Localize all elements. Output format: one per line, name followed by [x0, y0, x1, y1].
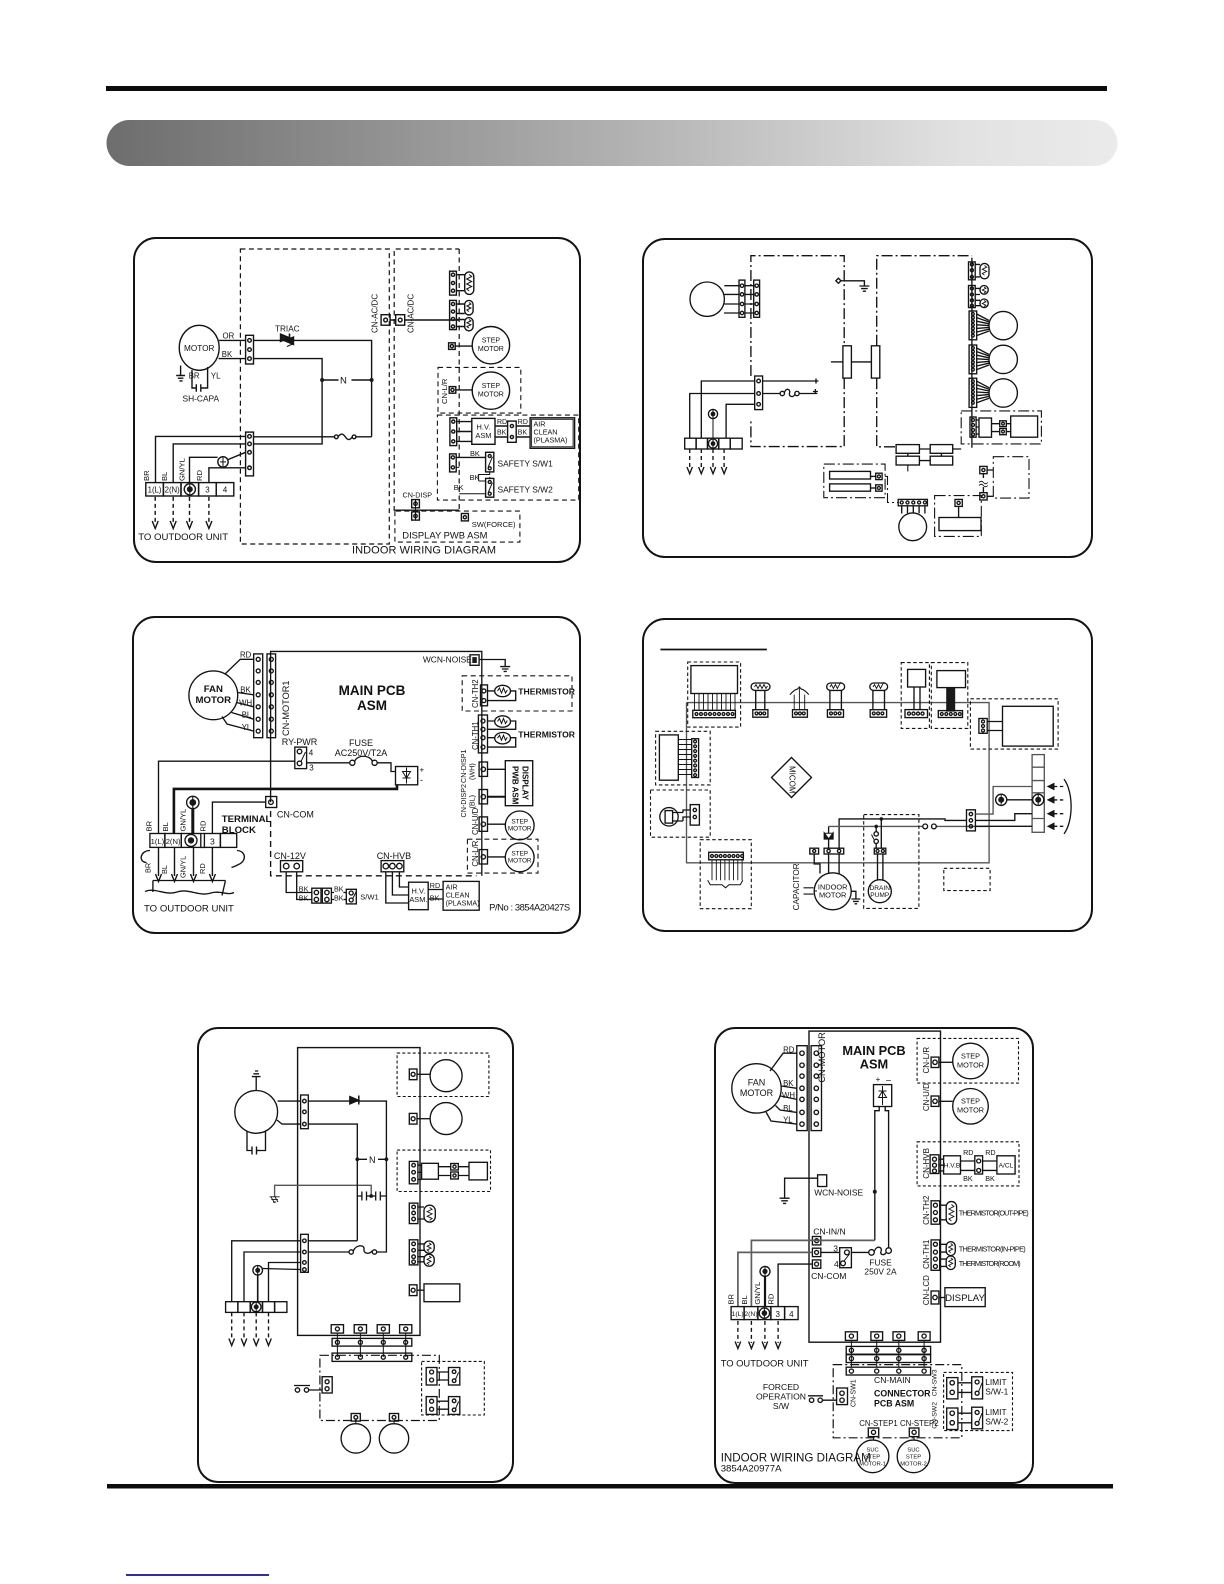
- connector HV 2-pin: [495, 421, 530, 442]
- screw upper: [253, 1266, 263, 1302]
- HV pins: [438, 1164, 469, 1180]
- link wires lower cluster: [885, 465, 908, 503]
- svg-text:4: 4: [834, 1259, 839, 1269]
- connector CN-TH1: [478, 715, 487, 753]
- wire RD terminal to CN-COM: [212, 802, 265, 833]
- svg-text:3: 3: [309, 764, 314, 773]
- AIR CLEAN (PLASMA) box: [530, 418, 575, 449]
- limit switch 1: [449, 1368, 460, 1386]
- svg-text:FAN: FAN: [204, 684, 223, 695]
- thermistor TH1d: [946, 1256, 955, 1270]
- HV connector: [409, 1161, 421, 1183]
- wire pin2 left: [690, 394, 755, 439]
- svg-text:RD: RD: [963, 1148, 973, 1157]
- fuse F1: [350, 756, 378, 765]
- arrow RD outdoor: [209, 847, 215, 881]
- svg-text:STEP: STEP: [482, 338, 501, 345]
- svg-text:A/CL: A/CL: [999, 1163, 1014, 1170]
- connector stub 3: [893, 1332, 905, 1341]
- fuse circles on line2: [923, 824, 937, 829]
- bars row 1: [896, 445, 961, 454]
- fuse: [308, 1246, 376, 1254]
- svg-text:TERMINAL: TERMINAL: [222, 814, 272, 825]
- svg-text:CN-SW1: CN-SW1: [851, 1379, 858, 1407]
- IC comb: [678, 740, 691, 775]
- wire YL: [766, 1112, 797, 1124]
- top right dashed box 2: [931, 663, 968, 729]
- svg-text:TO OUTDOOR UNIT: TO OUTDOOR UNIT: [721, 1358, 809, 1369]
- heading underline: [660, 649, 767, 651]
- triac symbol: [824, 833, 833, 839]
- wire RY-PWR to fuse: [307, 762, 350, 764]
- wire to safety switch 1: [456, 456, 485, 458]
- svg-text:RD: RD: [195, 470, 204, 481]
- connector coil group 2: [969, 286, 981, 308]
- motor pin box left: [810, 848, 820, 873]
- svg-text:BL: BL: [160, 472, 169, 481]
- suc step motor 2: [897, 1440, 930, 1473]
- diode lead left: [875, 1107, 879, 1241]
- strip row 2: [332, 1353, 412, 1361]
- screw earth GN/YL: [760, 1266, 770, 1306]
- pin box 1: [871, 473, 883, 479]
- svg-text:TRIAC: TRIAC: [275, 325, 300, 334]
- connector CN-MOTOR column B: [811, 1046, 821, 1131]
- top rule: [106, 86, 1107, 91]
- ground wire WCN: [785, 1178, 818, 1198]
- wire BR: [232, 1241, 301, 1302]
- node spine: [458, 249, 460, 510]
- svg-text:3: 3: [833, 1244, 838, 1254]
- svg-text:(PLASMA): (PLASMA): [534, 436, 568, 445]
- dashed arrow 4: [723, 449, 725, 469]
- svg-text:4: 4: [223, 486, 228, 495]
- node N line: [322, 379, 372, 381]
- dashed arrow 1: [231, 1312, 233, 1340]
- suc step motor circle 2: [379, 1424, 408, 1453]
- bars row 2: [896, 453, 953, 465]
- step motor SM2: [472, 372, 509, 409]
- svg-text:CONNECTOR: CONNECTOR: [874, 1389, 931, 1399]
- suc step motor circle 1: [341, 1424, 370, 1453]
- thermistor connector 2: [409, 1240, 424, 1265]
- drain pump dashed box: [864, 815, 919, 909]
- svg-text:CN-L/R: CN-L/R: [922, 1047, 931, 1074]
- dash-dot box right: [993, 457, 1029, 498]
- svg-text:CN-U/D: CN-U/D: [922, 1083, 931, 1111]
- dashed box limit: [422, 1361, 485, 1415]
- wire pin1 to right vertical: [308, 1101, 386, 1159]
- svg-text:STEP: STEP: [961, 1051, 980, 1060]
- pin box 1: [409, 1069, 430, 1080]
- svg-text:LIMIT: LIMIT: [985, 1377, 1006, 1387]
- capacitors row: [357, 1159, 386, 1200]
- safety switch S/W1: [486, 452, 494, 472]
- box2 body: [937, 671, 966, 688]
- connector CN-IN/N pin2: [812, 1248, 820, 1256]
- dashed arrow right 2: [1048, 797, 1054, 803]
- connector pair BK 1: [312, 888, 332, 903]
- coil unit 2: [827, 682, 845, 717]
- motor: [235, 1091, 278, 1134]
- strip row 3: [846, 1367, 930, 1375]
- relay 3/4: [840, 1248, 852, 1268]
- dash-dot box lower left: [824, 464, 885, 498]
- dashed arrow right 4: [1048, 824, 1054, 830]
- connector col 1: [301, 1095, 309, 1129]
- screw earth GN/YL: [187, 796, 199, 833]
- svg-text:FAN: FAN: [748, 1077, 766, 1087]
- svg-text:YL: YL: [242, 723, 252, 732]
- connector CN-COM: [266, 797, 277, 808]
- svg-text:WCN-NOISE: WCN-NOISE: [423, 655, 472, 665]
- svg-text:OR: OR: [223, 332, 235, 341]
- terminal block: [685, 438, 743, 449]
- wire RD terminal to CN-COM: [778, 1264, 812, 1307]
- svg-text:RY-PWR: RY-PWR: [282, 737, 318, 747]
- junction dot: [370, 378, 374, 382]
- svg-text:MAIN PCB: MAIN PCB: [339, 683, 406, 698]
- svg-text:–: –: [886, 1075, 891, 1085]
- dashed arrow right 3: [1048, 811, 1054, 817]
- ground symbol: [270, 1197, 280, 1203]
- svg-text:LIMIT: LIMIT: [985, 1407, 1006, 1417]
- screw symbol upper: [708, 409, 717, 438]
- svg-text:N: N: [369, 1155, 376, 1165]
- thermistor 3: [424, 1254, 434, 1266]
- svg-text:BL: BL: [740, 1295, 749, 1304]
- wire BL: [244, 1252, 301, 1302]
- box1 stem: [914, 687, 920, 710]
- box1 body: [908, 669, 926, 687]
- wire triac to node: [254, 340, 372, 436]
- svg-text:3: 3: [205, 486, 209, 495]
- motor wires: [724, 286, 754, 313]
- cable duct wavy: [145, 881, 234, 896]
- arrow BL outdoor: [172, 847, 178, 881]
- connector CN-12V: [281, 861, 303, 872]
- svg-text:3854A20977A: 3854A20977A: [721, 1464, 782, 1475]
- connector CN-DISP1: [479, 762, 505, 776]
- svg-text:CN-MOTOR: CN-MOTOR: [817, 1032, 827, 1083]
- svg-text:+: +: [876, 1075, 881, 1084]
- bar heater 2: [830, 484, 871, 491]
- connector stub 2: [871, 1332, 883, 1341]
- svg-text:BK: BK: [454, 483, 464, 492]
- wire screw link: [1007, 799, 1033, 801]
- wire pin2 to fuse: [763, 393, 781, 395]
- connector CN-MOTOR column A: [797, 1046, 807, 1131]
- terminal block TB1: [146, 483, 234, 496]
- wire line1 to pin: [919, 819, 967, 821]
- pin box 2: [871, 485, 883, 491]
- wire motor to pin3: [277, 1120, 301, 1124]
- svg-text:MOTOR: MOTOR: [196, 695, 232, 706]
- connector CN-U/D: [931, 1096, 953, 1106]
- step motor SM3: [505, 811, 534, 840]
- wire bus to triac to connector: [828, 826, 830, 848]
- fuse squiggle: [780, 389, 818, 396]
- ground under motor: [176, 366, 185, 381]
- optocoupler rect A: [843, 346, 852, 378]
- ground symbol: [780, 1198, 790, 1203]
- pin box pump: [955, 499, 962, 517]
- svg-text:BK: BK: [334, 885, 344, 894]
- connector CN-HVB2: [930, 1155, 944, 1174]
- coil 1: [980, 263, 989, 278]
- junction dot: [873, 1190, 877, 1194]
- capacitor symbol: [804, 888, 818, 894]
- HV box: [979, 418, 992, 437]
- svg-text:STEP: STEP: [906, 1454, 921, 1460]
- svg-text:3: 3: [775, 1310, 780, 1319]
- dashed box CN-HVB: [917, 1142, 1019, 1186]
- svg-text:THERMISTOR(ROOM): THERMISTOR(ROOM): [959, 1259, 1021, 1268]
- svg-text:CN-COM: CN-COM: [811, 1271, 846, 1281]
- wires to air clean: [428, 890, 443, 900]
- step motor circle 1: [430, 1060, 462, 1092]
- svg-text:FUSE: FUSE: [349, 738, 373, 748]
- svg-text:BK: BK: [222, 350, 233, 359]
- wire WH: [781, 1096, 797, 1099]
- svg-text:BR: BR: [727, 1294, 736, 1305]
- terminal block: [226, 1302, 287, 1313]
- connector CN-AC/DC pair: [381, 315, 459, 326]
- wire BK: [238, 693, 254, 695]
- wires squiggle to box: [987, 470, 993, 496]
- svg-text:STEP: STEP: [511, 850, 528, 857]
- strip row 2: [846, 1355, 930, 1363]
- panel 1 border: [134, 238, 580, 562]
- terminal block TB2: [731, 1307, 798, 1320]
- box2 connector: [938, 711, 962, 718]
- HV box: [422, 1163, 439, 1179]
- indoor motor: [814, 873, 851, 910]
- svg-text:BR: BR: [145, 820, 154, 831]
- dashed arrow 4: [268, 1312, 270, 1340]
- IC connector column: [692, 739, 699, 778]
- transformer body: [691, 666, 738, 694]
- wire B: [975, 814, 1032, 821]
- suc step motor 1: [856, 1440, 889, 1473]
- svg-text:CN-LCD: CN-LCD: [922, 1275, 931, 1305]
- svg-text:CN-AC/DC: CN-AC/DC: [371, 294, 380, 333]
- buzzer dashed box: [651, 790, 711, 837]
- svg-text:YL: YL: [783, 1116, 793, 1125]
- coil 2: [980, 286, 988, 295]
- dashed box CN-TH2: [462, 676, 572, 711]
- dashed arrow 3: [764, 1321, 766, 1343]
- top right dashed box 1: [901, 663, 929, 729]
- svg-text:DISPLAY: DISPLAY: [945, 1293, 985, 1304]
- varistor symbol: [790, 687, 809, 717]
- wire YL: [222, 717, 254, 732]
- svg-text:ASM: ASM: [860, 1057, 888, 1072]
- coil L2: [465, 300, 473, 315]
- wire CN-12V to BK connectors: [286, 872, 312, 900]
- svg-text:2(N): 2(N): [744, 1311, 757, 1318]
- dashed arrow 4: [777, 1321, 779, 1343]
- connector stub 1: [845, 1332, 857, 1341]
- connector SW(FORCE): [461, 514, 468, 521]
- connector CN-STEP1: [868, 1428, 878, 1440]
- section title gradient bar: [107, 120, 1118, 166]
- relay body: [1003, 706, 1054, 746]
- svg-text:-: -: [420, 775, 423, 785]
- svg-text:SAFETY S/W1: SAFETY S/W1: [498, 459, 554, 469]
- transformer comb: [695, 694, 736, 711]
- svg-text:1(L): 1(L): [148, 486, 162, 495]
- dashed box limit switches: [944, 1372, 1013, 1430]
- dashed box CN-L/R: [438, 367, 521, 413]
- pin box 2: [409, 1113, 430, 1124]
- svg-text:BK: BK: [334, 894, 344, 903]
- wires stubs to strips: [851, 1340, 924, 1367]
- svg-text:BL: BL: [783, 1104, 793, 1113]
- wire BK to node: [254, 359, 323, 444]
- wire fuse to diode: [377, 763, 395, 772]
- ground at motor: [851, 891, 860, 904]
- thermistor 1: [424, 1205, 435, 1222]
- wire RD terminal to connector: [209, 468, 246, 483]
- AIR CLEAN (PLASMA) box: [443, 881, 479, 910]
- svg-text:2(N): 2(N): [165, 486, 181, 495]
- svg-text:RD: RD: [198, 820, 207, 831]
- wire C: [975, 825, 1032, 827]
- wire relay to fuse: [851, 1251, 868, 1253]
- comb connector motor: [898, 499, 927, 513]
- air clean box: [1011, 416, 1038, 437]
- H.V.B box: [944, 1156, 961, 1174]
- connector coil group 1 (3 pin): [450, 271, 465, 295]
- svg-text:BK: BK: [470, 449, 480, 458]
- wire BL to CN-IN/N: [751, 1240, 874, 1306]
- fan motor FM1: [189, 671, 238, 720]
- dashed box CN-L/R: [467, 839, 538, 873]
- coil unit 3: [870, 682, 888, 717]
- svg-text:MOTOR: MOTOR: [819, 891, 846, 900]
- ground above motor: [252, 1071, 261, 1091]
- connector WCN-NOISE: [470, 655, 479, 666]
- svg-text:BK: BK: [497, 430, 507, 437]
- step connector 1: [351, 1414, 360, 1425]
- svg-text:BK: BK: [240, 686, 251, 695]
- dash-dot box pump: [935, 496, 982, 537]
- curved bracket: [1064, 779, 1071, 834]
- svg-text:STEP: STEP: [482, 383, 501, 390]
- relay RY-PWR: [295, 747, 314, 772]
- svg-text:FORCED: FORCED: [763, 1382, 799, 1392]
- step motor SM1: [472, 327, 509, 364]
- svg-text:(BL): (BL): [468, 795, 477, 809]
- svg-text:BR: BR: [144, 863, 153, 873]
- wire BR to relay: [738, 1252, 813, 1306]
- svg-text:THERMISTOR(OUT-PIPE): THERMISTOR(OUT-PIPE): [959, 1209, 1029, 1218]
- svg-text:RD: RD: [430, 881, 440, 890]
- svg-text:INDOOR WIRING DIAGRAM: INDOOR WIRING DIAGRAM: [352, 545, 496, 557]
- dashed arrow 2: [750, 1321, 752, 1343]
- H.V. ASM box: [409, 882, 429, 910]
- drain pump: [868, 880, 891, 903]
- wire BL: [776, 1106, 797, 1113]
- svg-text:CAPACITOR: CAPACITOR: [792, 863, 801, 910]
- connector coil group 2 (4 pin): [450, 300, 465, 329]
- squiggle connector: [979, 466, 988, 500]
- capacitor SH-CAPA: [192, 367, 208, 392]
- step connector 2: [389, 1414, 398, 1425]
- svg-text:BLOCK: BLOCK: [222, 825, 256, 836]
- motor pin box pair: [824, 848, 844, 874]
- svg-text:TO OUTDOOR UNIT: TO OUTDOOR UNIT: [144, 904, 234, 915]
- ground node: [836, 278, 870, 291]
- wire pin2 to relay: [821, 1251, 840, 1253]
- small dashed box bottom right: [944, 868, 990, 890]
- svg-text:SW(FORCE): SW(FORCE): [472, 520, 516, 529]
- coil unit 1: [751, 683, 770, 717]
- forced switch symbol: [808, 1396, 837, 1403]
- wire A gray: [975, 787, 1032, 815]
- link wire: [851, 361, 871, 363]
- connector CN-MOTOR1 column B: [267, 654, 276, 738]
- footer blue underline: [126, 1574, 269, 1576]
- comb connector strip: [709, 852, 744, 860]
- brace under comb: [708, 880, 743, 888]
- comb lines: [712, 860, 742, 881]
- IC body: [659, 735, 678, 780]
- screw left: [996, 794, 1007, 805]
- connector CN-STEP2: [909, 1428, 919, 1440]
- dashed arrow 3: [255, 1312, 257, 1340]
- dashed box HV: [397, 1150, 490, 1191]
- buzzer: [660, 808, 683, 826]
- svg-text:GN/YL: GN/YL: [178, 809, 187, 832]
- connector CN-IN/N pin1: [812, 1237, 820, 1245]
- limit switch S/W-1: [972, 1377, 983, 1399]
- svg-text:(WH): (WH): [468, 763, 477, 780]
- svg-text:BK: BK: [430, 894, 440, 903]
- connector CN-TH2b: [931, 1201, 946, 1224]
- wire screw to pin4: [263, 1269, 301, 1270]
- svg-text:RD: RD: [240, 651, 252, 660]
- connector CN-U/D pin: [449, 343, 473, 350]
- limit switch S/W-2: [972, 1407, 983, 1429]
- svg-text:1(L): 1(L): [151, 837, 165, 846]
- fan motor FM2: [732, 1064, 781, 1113]
- svg-text:RD: RD: [783, 1046, 795, 1055]
- fuse F2: [869, 1247, 892, 1255]
- connector CN-MOTOR (3 pin): [246, 335, 254, 364]
- diode lead right: [885, 1107, 888, 1249]
- float switch: [872, 826, 879, 848]
- svg-text:MOTOR: MOTOR: [508, 826, 532, 833]
- step motor circle 2: [430, 1103, 462, 1135]
- triac symbol: [350, 1096, 359, 1105]
- panel 5 border: [198, 1028, 513, 1482]
- step motor circle 2: [989, 345, 1017, 373]
- svg-text:DISPLAY PWB ASM: DISPLAY PWB ASM: [402, 530, 487, 541]
- svg-text:4: 4: [789, 1310, 794, 1319]
- connector safety 2-pin: [450, 454, 457, 472]
- transformer dashed box: [688, 662, 741, 727]
- svg-text:MOTOR: MOTOR: [740, 1088, 774, 1098]
- wire OR motor to connector: [219, 339, 246, 341]
- connector CN-SW3: [947, 1378, 972, 1399]
- node spine right: [971, 258, 973, 448]
- svg-text:CN-MAIN: CN-MAIN: [874, 1375, 911, 1385]
- svg-text:CN-STEP2: CN-STEP2: [900, 1419, 939, 1428]
- stub wire left of rect A: [831, 361, 843, 363]
- svg-text:SH-CAPA: SH-CAPA: [183, 394, 220, 404]
